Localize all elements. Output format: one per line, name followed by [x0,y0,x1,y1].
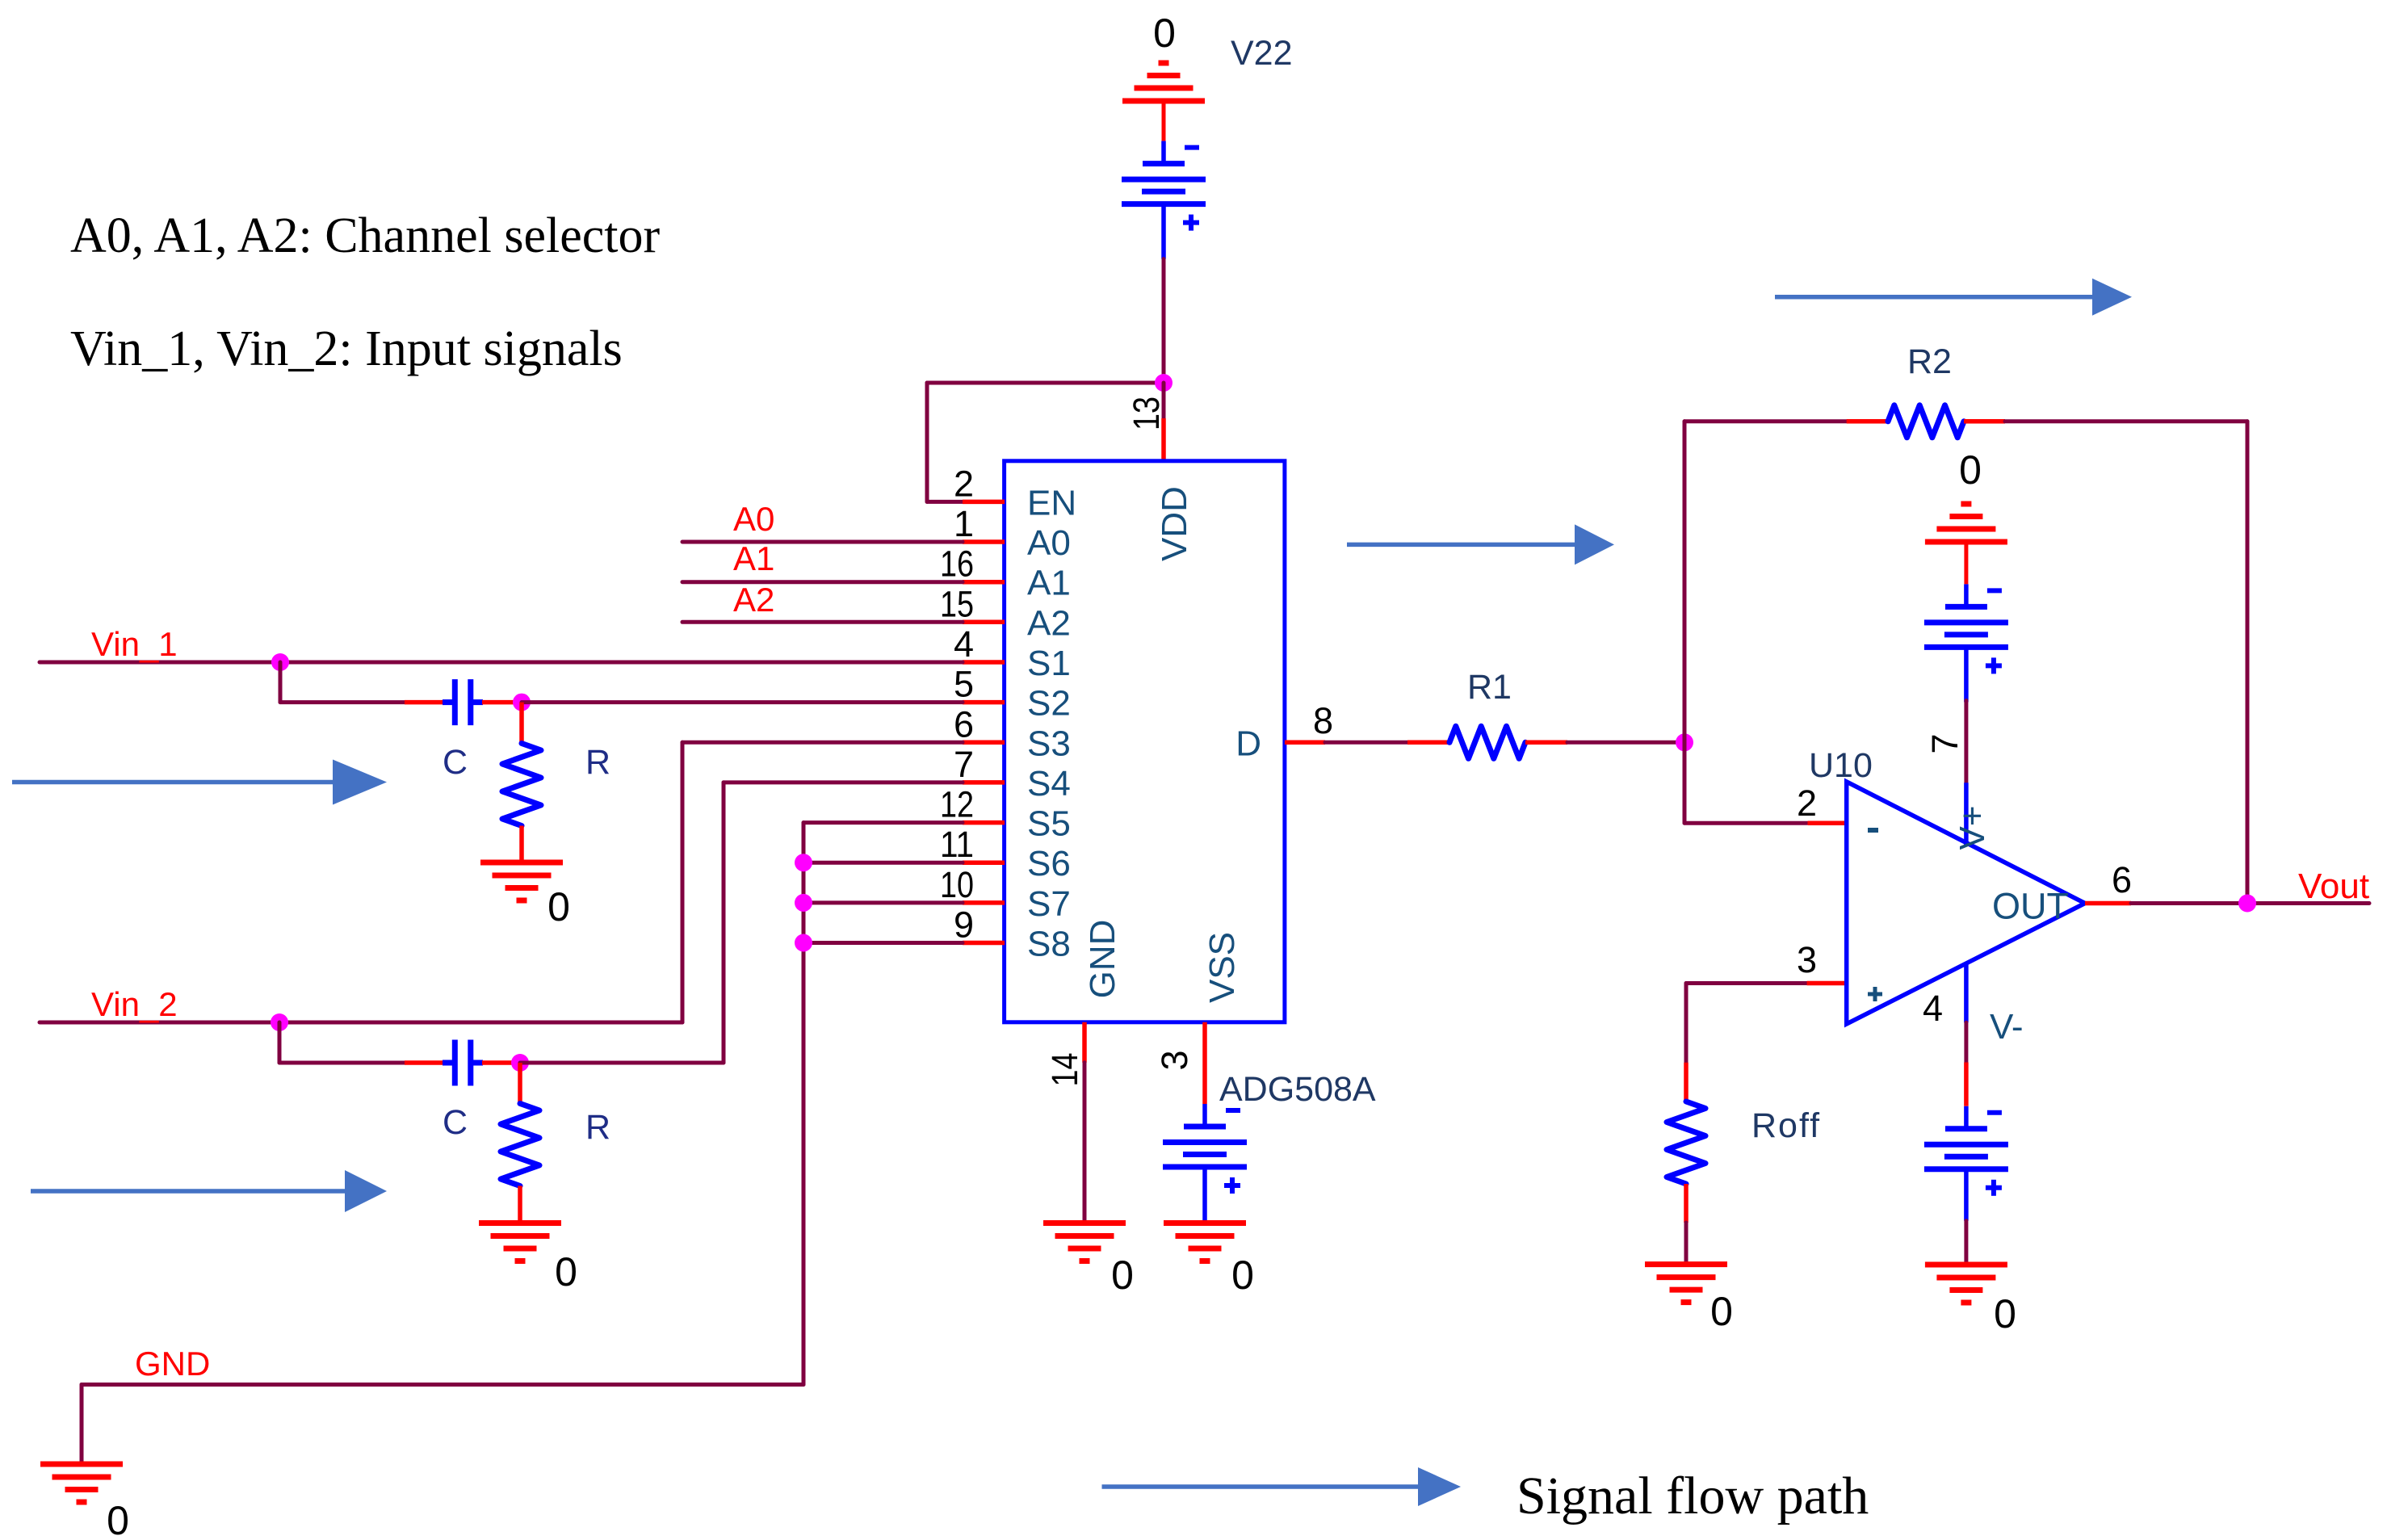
svg-text:9: 9 [954,904,974,946]
label 0 (VSS ground) [1231,1253,1254,1298]
svg-text:Vin_1: Vin_1 [91,625,178,663]
svg-text:GND: GND [135,1345,210,1383]
label 0 (upper R ground) [547,884,570,929]
svg-text:0: 0 [547,884,570,929]
pin 3 stub (op-amp) [1807,981,1847,986]
wire GND horizontal [82,1383,803,1387]
svg-text:S3: S3 [1027,724,1071,763]
svg-text:Roff: Roff [1751,1106,1821,1145]
pin number 6 [954,703,974,745]
svg-text:14: 14 [1044,1053,1085,1087]
ground 0 (inverted, above V22) [1122,63,1205,101]
wire to op-amp pin 2 [1684,821,1807,825]
label A1 (net) [733,539,774,577]
svg-text:S4: S4 [1027,764,1071,804]
label C (lower) [443,1103,468,1142]
svg-text:7: 7 [1924,733,1965,753]
pin 14 stub GND [1082,1022,1087,1063]
capacitor C (upper) right lead [482,700,522,705]
wire junction to R2 riser [1683,422,1687,743]
wire R2 left horizontal [1684,419,1847,423]
svg-text:A0: A0 [1027,523,1071,563]
pin number 13 [1126,397,1167,430]
pin number 11 [940,824,974,865]
pin number 10 [940,864,974,905]
wire junction to S2 [522,700,963,704]
svg-text:0: 0 [1153,10,1176,56]
label 0 (V- ground) [1994,1291,2016,1336]
pin 13 stub VDD [1161,418,1166,461]
resistor R2 left lead [1847,419,1888,424]
pin number 14 [1044,1053,1085,1087]
pin name GND (rotated) [1083,920,1122,999]
svg-text:R1: R1 [1467,668,1512,707]
pin stub S3 (6) [963,741,1005,745]
label 0 (top ground) [1153,10,1176,56]
wire A0 [682,540,963,544]
pin stub S4 (7) [963,780,1005,785]
svg-text:0: 0 [1111,1253,1134,1298]
label Vin_1 [91,625,178,663]
pin name S6 [1027,844,1071,883]
pin stub S5 (12) [963,820,1005,825]
svg-text:A1: A1 [1027,564,1071,603]
node C-R junction (lower) [511,1054,529,1072]
arrow (middle, after mux) [1347,524,1614,564]
pin number 7 (rotated) [1924,733,1965,753]
pin name OUT [1992,886,2069,927]
ground 0 (V- battery) [1925,1265,2007,1303]
battery V- supply [1924,1106,2008,1221]
ground 0 (under Roff) [1645,1265,1727,1303]
arrow (signal flow legend) [1102,1467,1462,1506]
label 0 (chip GND ground) [1111,1253,1134,1298]
node VDD junction [1155,374,1173,392]
svg-text:Signal flow path: Signal flow path [1517,1467,1869,1525]
node S8 junction [795,934,812,952]
resistor R (lower) bottom lead [518,1186,522,1223]
pin number 4 (op-amp) [1923,988,1943,1029]
pin stub A1 (16) [963,580,1005,585]
label Vout [2298,867,2369,906]
svg-text:S8: S8 [1027,925,1071,964]
pin 6 stub OUT [2085,901,2131,906]
label GND (net) [135,1345,210,1383]
svg-text:0: 0 [555,1249,577,1295]
pin 4 stub [1964,1063,1969,1106]
wire S4 riser [722,783,726,1063]
svg-text:2: 2 [1797,783,1817,824]
resistor Roff [1667,1101,1705,1184]
resistor Roff bottom lead [1684,1184,1689,1223]
wire A2 [682,620,963,624]
label ADG508A [1219,1070,1376,1109]
ground 0 (under upper R) [480,862,563,900]
pin name S1 [1027,644,1071,683]
pin name D [1235,724,1261,763]
svg-text:2: 2 [954,463,974,504]
wire op-amp pin 3 horizontal [1686,981,1807,985]
wire EN vertical [925,383,929,501]
wire junction to pin 2 drop [1683,742,1687,823]
wire ground to V22 [1162,101,1166,141]
label 0 (Roff ground) [1710,1289,1733,1334]
annotation line 2 [70,321,623,376]
resistor R (lower) top lead [518,1063,522,1104]
label U10 [1809,746,1873,785]
pin 7 lead into op-amp [1964,783,1969,846]
wire V+ ground to battery [1964,542,1968,584]
pin name A1 [1027,564,1071,603]
resistor R1 left lead [1407,741,1449,745]
pin name EN [1027,483,1076,522]
svg-text:EN: EN [1027,483,1076,522]
pin name S4 [1027,764,1071,804]
ground 0 (VSS battery) [1164,1223,1246,1261]
wire Vin_1 junction drop [279,662,283,703]
wire junction to S4 riser [520,1061,724,1065]
ground 0 (under lower R) [479,1223,561,1261]
pin name VSS (rotated) [1202,932,1242,1003]
pin number 3 (VSS) [1154,1050,1195,1070]
svg-text:A2: A2 [733,581,774,619]
svg-text:S6: S6 [1027,844,1071,883]
resistor Roff top lead [1684,1063,1689,1101]
pin number 3 (op-amp) [1797,939,1817,980]
label A2 (net) [733,581,774,619]
wire Vin_2 junction drop [278,1022,282,1063]
svg-text:V-: V- [1990,1007,2024,1047]
pin number 2 [954,463,974,504]
wire R2 to output [2246,422,2250,904]
wire V22 to VDD junction [1162,259,1166,383]
pin name A2 [1027,603,1071,643]
wire pin 3 drop to Roff [1684,984,1689,1063]
node C-R junction (upper) [513,694,531,711]
resistor R2 right lead [1964,419,2005,424]
wire GND bus vertical [802,823,806,1385]
pin number 12 [940,784,974,825]
pin number 8 [1313,700,1333,741]
svg-text:12: 12 [940,784,974,825]
svg-text:V22: V22 [1231,34,1293,73]
svg-text:Vout: Vout [2298,867,2369,906]
wire S5 [803,820,963,825]
annotation signal flow path [1517,1467,1869,1525]
ground 0 (inverted, above V+ battery) [1925,504,2007,542]
svg-text:V+: V+ [1953,805,1992,850]
svg-text:S7: S7 [1027,884,1071,924]
pin name S2 [1027,684,1071,724]
resistor R1 [1449,726,1525,758]
wire Vin_2 riser to S3 [681,742,685,1022]
pin stub S6 (11) [963,860,1005,865]
wire S8 [803,941,963,945]
label R (upper) [585,743,610,782]
svg-text:0: 0 [1710,1289,1733,1334]
wire A1 [682,580,963,584]
svg-text:D: D [1235,724,1261,763]
svg-text:A0: A0 [733,500,774,538]
wire VDD drop [1162,383,1166,418]
wire GND pin to ground [1083,1063,1087,1223]
pin name S5 [1027,804,1071,844]
svg-text:OUT: OUT [1992,886,2069,927]
svg-text:R: R [585,743,610,782]
wire S6 [803,861,963,865]
pin stub S2 (5) [963,700,1005,705]
svg-text:C: C [443,743,468,782]
svg-text:5: 5 [954,664,974,705]
pin name VDD (rotated) [1155,486,1194,561]
svg-text:6: 6 [954,703,974,745]
svg-text:ADG508A: ADG508A [1219,1070,1376,1109]
svg-text:U10: U10 [1809,746,1873,785]
wire R2 right horizontal [2005,419,2247,423]
svg-text:Vin_1, Vin_2: Input signals: Vin_1, Vin_2: Input signals [70,321,623,376]
wire battery to pin 7 [1964,701,1968,783]
resistor R (lower) [501,1104,539,1186]
pin number 5 [954,664,974,705]
pin number 16 [940,543,974,585]
svg-text:R2: R2 [1907,342,1952,381]
svg-text:A2: A2 [1027,603,1071,643]
pin 8 stub D [1285,741,1325,745]
wire EN to pin 2 [927,500,963,504]
wire Vin_1 to S1 [40,661,963,665]
arrow (lower left) [31,1170,387,1212]
pin name V+ (rotated) [1953,805,1992,850]
pin number 7 [954,744,974,785]
wire S7 [803,900,963,904]
svg-text:7: 7 [954,744,974,785]
svg-text:4: 4 [954,623,974,665]
resistor R (upper) bottom lead [519,826,524,863]
pin number 6 (op-amp) [2112,859,2132,900]
svg-text:0: 0 [1994,1291,2016,1336]
pin 2 stub (op-amp) [1808,820,1848,825]
svg-text:GND: GND [1083,920,1122,999]
svg-text:0: 0 [1959,447,1982,493]
label R2 [1907,342,1952,381]
capacitor C (lower) [443,1040,483,1086]
pin number 4 [954,623,974,665]
svg-text:R: R [585,1108,610,1147]
capacitor C (lower) left lead [405,1060,443,1065]
op-amp plus mark [1868,987,1882,1001]
battery V22 [1122,141,1206,259]
resistor R (upper) [502,744,541,826]
battery V+ supply [1924,584,2008,702]
svg-text:10: 10 [940,864,974,905]
pin 3 stub VSS [1202,1022,1207,1104]
svg-text:Vin_2: Vin_2 [91,985,178,1023]
svg-text:3: 3 [1154,1050,1195,1070]
svg-text:S1: S1 [1027,644,1071,683]
node Vin_2 junction [271,1013,288,1031]
svg-text:4: 4 [1923,988,1943,1029]
capacitor C (lower) right lead [482,1060,520,1065]
arrow (top right) [1775,279,2132,316]
pin number 1 [954,503,974,544]
wire Roff to ground [1684,1223,1689,1265]
svg-text:A1: A1 [733,539,774,577]
annotation line 1 [70,208,660,263]
pin name V- [1990,1007,2024,1047]
svg-text:S2: S2 [1027,684,1071,724]
svg-text:8: 8 [1313,700,1333,741]
svg-text:VDD: VDD [1155,486,1194,561]
svg-text:0: 0 [1231,1253,1254,1298]
label R (lower) [585,1108,610,1147]
op-amp minus mark [1868,828,1878,833]
wire S4 horizontal [724,780,963,784]
capacitor C (upper) [443,679,483,725]
svg-text:6: 6 [2112,859,2132,900]
battery VSS supply [1163,1104,1247,1222]
pin number 9 [954,904,974,946]
label C (upper) [443,743,468,782]
pin number 2 (op-amp) [1797,783,1817,824]
pin name S3 [1027,724,1071,763]
pin name S7 [1027,884,1071,924]
arrow (upper left) [12,760,387,805]
pin name A0 [1027,523,1071,563]
node Vout junction [2238,895,2256,913]
svg-text:15: 15 [940,583,974,624]
svg-text:0: 0 [107,1498,129,1540]
svg-text:VSS: VSS [1202,932,1242,1003]
label 0 (lower R ground) [555,1249,577,1295]
svg-text:S5: S5 [1027,804,1071,844]
svg-text:13: 13 [1126,397,1167,430]
label Roff [1751,1106,1821,1145]
svg-text:3: 3 [1797,939,1817,980]
svg-text:1: 1 [954,503,974,544]
wire R1 to junction [1567,741,1684,745]
pin stub S7 (10) [963,900,1005,905]
IC ADG508A body [1005,461,1285,1022]
label Vin_2 [91,985,178,1023]
wire to capacitor C (upper) [280,700,405,704]
svg-text:11: 11 [940,824,974,865]
label 0 (bottom left ground) [107,1498,129,1540]
svg-text:A0, A1, A2: Channel selector: A0, A1, A2: Channel selector [70,208,660,263]
svg-text:C: C [443,1103,468,1142]
pin 4 lead out of op-amp [1964,963,1969,1023]
op-amp U10 body [1847,782,2085,1024]
label R1 [1467,668,1512,707]
wire S3 horizontal [682,741,963,745]
resistor R (upper) top lead [519,703,524,744]
ground 0 (bottom left) [40,1464,123,1502]
svg-text:16: 16 [940,543,974,585]
pin name S8 [1027,925,1071,964]
wire D to R1 [1325,741,1407,745]
wire to capacitor C (lower) [279,1061,405,1065]
resistor R1 right lead [1525,741,1567,745]
pin stub A2 (15) [963,620,1005,625]
wire EN horizontal top [927,381,1164,385]
label 0 (V+ ground) [1959,447,1982,493]
pin number 15 [940,583,974,624]
wire OUT to Vout [2131,901,2369,905]
node R1 junction [1676,733,1693,751]
wire Vin_2 [40,1021,682,1025]
pin stub EN (2) [963,500,1005,505]
node Vin_1 junction [271,653,289,671]
pin stub A0 (1) [963,539,1005,544]
pin stub S1 (4) [963,660,1005,665]
node S7 junction [795,894,812,912]
ground 0 (chip GND) [1043,1223,1126,1261]
label A0 (net) [733,500,774,538]
wire battery to ground (V-) [1964,1221,1968,1265]
pin stub S8 (9) [963,941,1005,946]
label V22 [1231,34,1293,73]
capacitor C (upper) left lead [405,700,443,705]
wire GND drop [80,1385,84,1465]
node S6 junction [795,854,812,871]
wire pin 4 down [1964,1022,1968,1062]
resistor R2 [1888,405,1964,438]
